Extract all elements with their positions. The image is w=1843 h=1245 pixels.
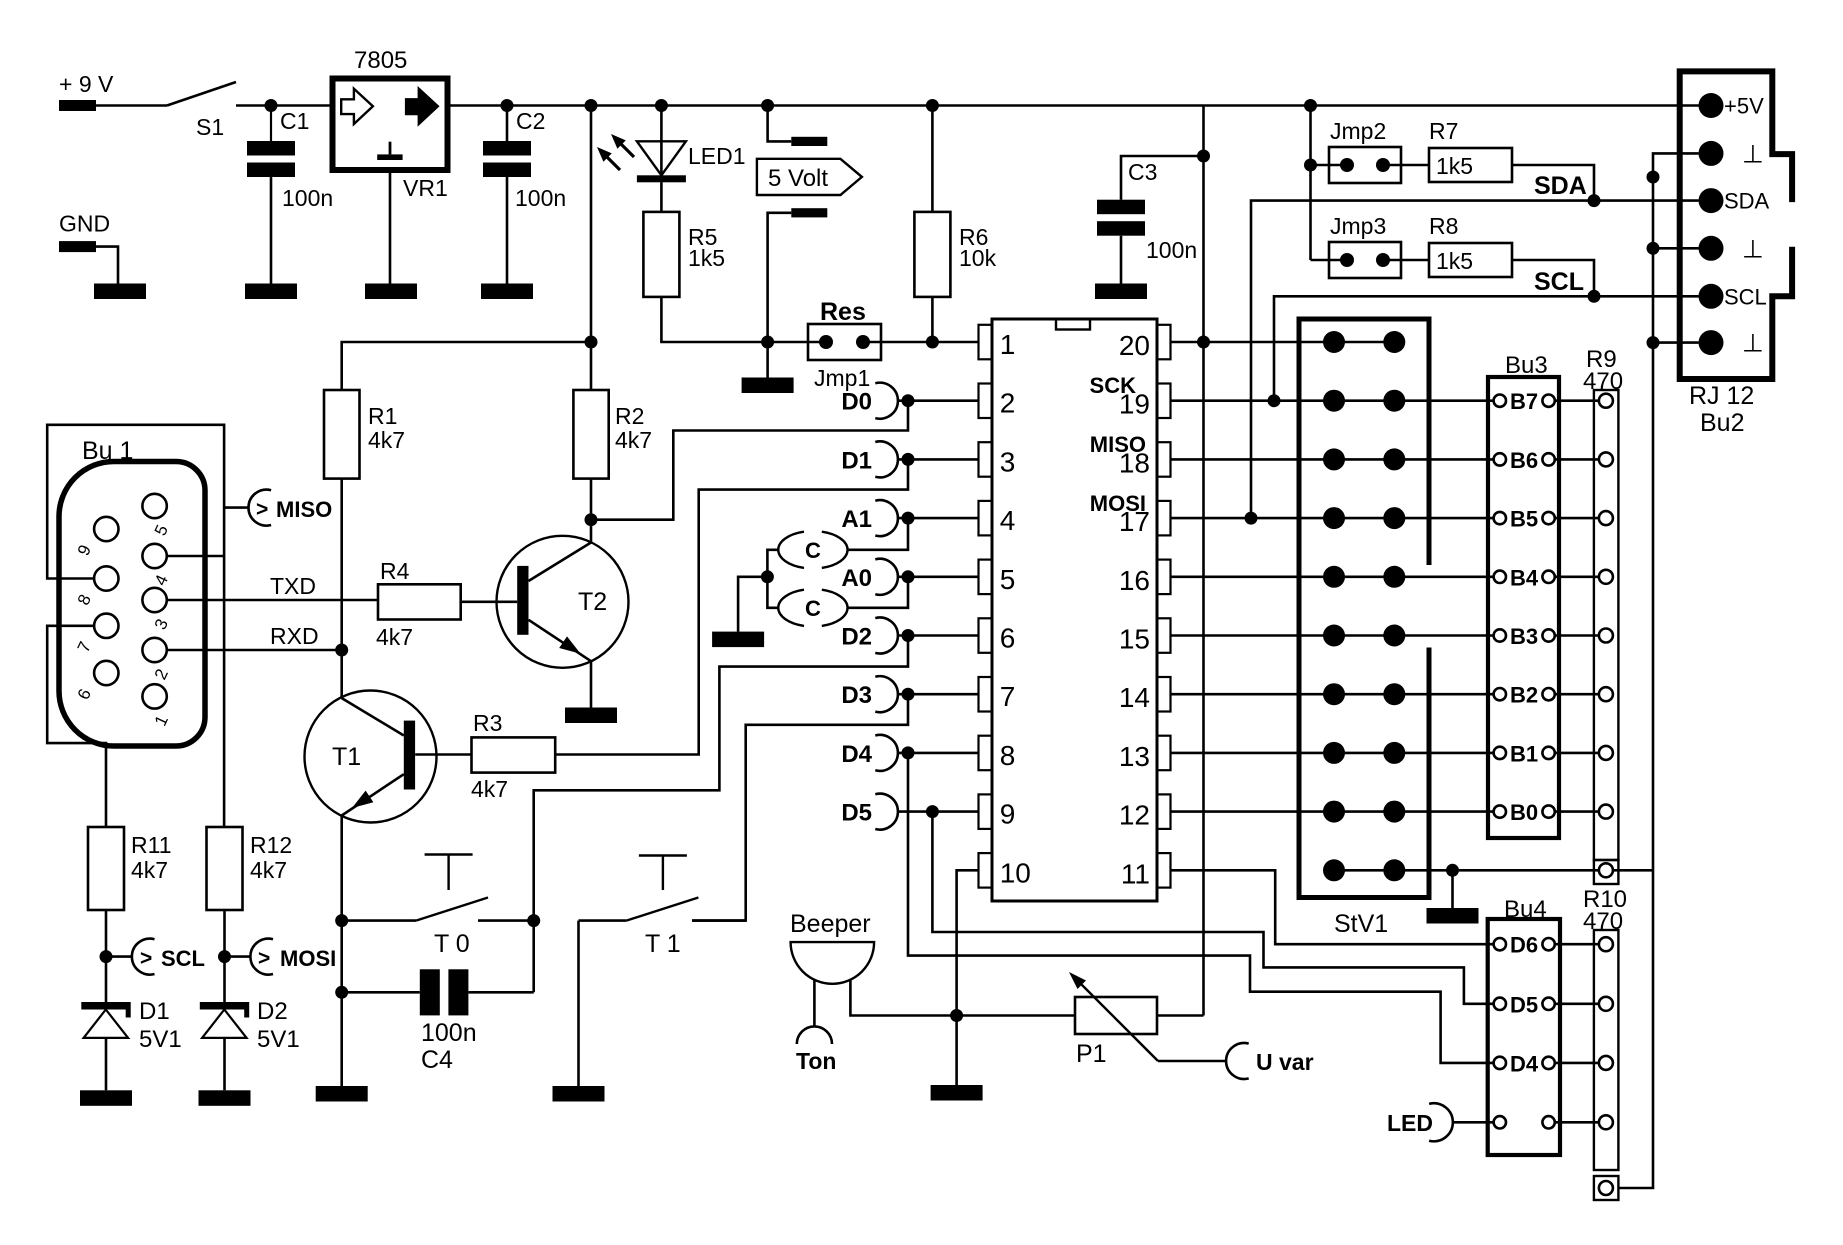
wire StV1 to Bu3 B5 <box>1394 517 1493 520</box>
svg-text:14: 14 <box>1119 682 1150 713</box>
wire rail to RJ12 +5V <box>1699 104 1712 107</box>
svg-text:B0: B0 <box>1510 800 1538 825</box>
svg-text:5 Volt: 5 Volt <box>768 165 828 192</box>
jumper Jmp1 Res <box>808 324 881 360</box>
wire D1 to pin 3 <box>898 458 979 461</box>
pin 2 stub <box>979 384 993 419</box>
StV1 pin row 2 left <box>1323 390 1345 412</box>
Bu3 pin B5 right <box>1542 512 1554 524</box>
wire rail to R1/R2 node <box>590 106 593 391</box>
wire Jmp3 to R8 <box>1383 259 1429 262</box>
svg-text:SCL: SCL <box>1534 268 1584 296</box>
svg-text:A0: A0 <box>841 565 872 592</box>
svg-text:>: > <box>140 947 152 970</box>
VR1 input arrow <box>341 89 373 124</box>
wire 5V lower terminal to reset line <box>768 213 792 342</box>
resistor R7 <box>1429 148 1512 182</box>
svg-text:10: 10 <box>1000 857 1031 888</box>
svg-text:B7: B7 <box>1510 389 1538 414</box>
svg-text:D4: D4 <box>1510 1051 1539 1076</box>
svg-text:MOSI: MOSI <box>1090 491 1146 516</box>
svg-text:Ton: Ton <box>796 1048 836 1074</box>
connector arc D1 <box>875 441 898 477</box>
wire MISO tap <box>224 506 248 509</box>
Bu4 pin row 4 left <box>1494 1116 1506 1128</box>
resistor R4 <box>378 584 461 619</box>
R10 common pin <box>1599 1181 1613 1195</box>
svg-text:4k7: 4k7 <box>376 624 413 650</box>
svg-text:Res: Res <box>820 298 866 326</box>
wire Bu3 to R9 pin B3 <box>1555 634 1599 637</box>
wire R11 to D1 <box>105 910 108 1002</box>
svg-text:R7: R7 <box>1429 118 1458 144</box>
svg-text:P1: P1 <box>1076 1040 1107 1068</box>
svg-text:4k7: 4k7 <box>368 427 405 453</box>
node D5 <box>926 805 939 818</box>
StV1 pin row 5 left <box>1323 566 1345 588</box>
wire beeper left lead <box>813 980 816 1027</box>
svg-text:MISO: MISO <box>1090 432 1146 457</box>
connector RJ12 Bu2 outline <box>1680 71 1792 379</box>
node bus 2 <box>1647 242 1660 255</box>
svg-text:20: 20 <box>1119 330 1150 361</box>
svg-text:C3: C3 <box>1128 159 1157 185</box>
node SCL/R8 <box>1588 290 1601 303</box>
svg-text:>: > <box>258 947 270 970</box>
svg-text:B6: B6 <box>1510 448 1538 473</box>
connector arc D4 <box>875 735 898 771</box>
svg-text:RXD: RXD <box>270 623 319 649</box>
ground for StV1 <box>1427 908 1479 924</box>
svg-text:SCK: SCK <box>1090 373 1137 398</box>
wire StV1 to Bu3 B2 <box>1394 693 1493 696</box>
common circle upper C <box>778 532 804 568</box>
pin 14 stub <box>1157 677 1171 712</box>
svg-text:470: 470 <box>1583 368 1623 395</box>
StV1 pin row 2 right <box>1383 390 1405 412</box>
wire Jmp2 left <box>1311 164 1348 167</box>
Bu1 pin 8 <box>94 566 118 590</box>
Bu3 pin B3 left <box>1494 629 1506 641</box>
svg-text:D2: D2 <box>841 624 872 651</box>
pin 9 stub <box>979 794 993 829</box>
pin 18 stub <box>1157 442 1171 477</box>
svg-text:8: 8 <box>1000 740 1016 771</box>
wire A1 to upper C <box>847 518 908 550</box>
StV1 pin row 7 right <box>1383 683 1405 705</box>
svg-text:⊥: ⊥ <box>1742 330 1764 358</box>
Bu1 pin 2 <box>142 638 166 662</box>
wire StV1 to Bu3 B6 <box>1394 458 1493 461</box>
node R1/R2/+5V <box>585 336 598 349</box>
connector arc U var <box>1226 1043 1249 1079</box>
connector Bu1 DB9 outline <box>59 462 205 747</box>
StV1 pin row 8 left <box>1323 742 1345 764</box>
ground for C2 <box>481 284 533 300</box>
svg-text:6: 6 <box>1000 623 1016 654</box>
wire ground bus <box>1618 153 1698 1188</box>
R10 pin row 3 <box>1599 1056 1613 1070</box>
svg-text:R2: R2 <box>615 403 644 429</box>
node T0/C4/D2 <box>527 914 540 927</box>
ground for T1 emitter <box>316 1086 368 1102</box>
wire +5V vertical <box>1202 106 1205 1016</box>
Bu3 pin B2 left <box>1494 688 1506 700</box>
resistor R5 <box>643 212 679 297</box>
svg-text:D3: D3 <box>841 682 872 709</box>
wire pin11 to Bu4 D6 <box>1171 870 1494 944</box>
wire T1 button right <box>692 919 746 922</box>
wire Bu3 to R9 pin B7 <box>1555 399 1599 402</box>
svg-text:T2: T2 <box>578 588 607 616</box>
node D4 <box>902 746 915 759</box>
StV1 pin row 4 right <box>1383 507 1405 529</box>
wire T1 button left <box>579 919 627 922</box>
wire R1 top link <box>342 342 591 390</box>
connector arc Ton <box>797 1026 832 1044</box>
connector arc MOSI <box>250 939 273 975</box>
connector arc D3 <box>875 676 898 712</box>
ground for T1 button <box>553 1086 605 1102</box>
zener diode D1 <box>81 1002 130 1010</box>
ground for beeper node <box>931 1085 983 1101</box>
StV1 pin row 9 right <box>1383 801 1405 823</box>
svg-text:D5: D5 <box>841 800 872 827</box>
node MOSI clamp <box>218 950 231 963</box>
wire A1 to pin 4 <box>898 517 979 520</box>
StV1 pin row 10 right <box>1383 859 1405 881</box>
LED LED1 <box>660 106 663 183</box>
RJ12 pin ⊥ <box>1699 141 1724 166</box>
svg-text:T 0: T 0 <box>434 930 470 958</box>
Bu4 pin row 1 left <box>1494 938 1506 950</box>
svg-text:R12: R12 <box>250 832 292 858</box>
svg-text:7805: 7805 <box>354 47 407 74</box>
wire T1 collector <box>340 650 343 698</box>
wire pin 15 to StV1 row <box>1171 634 1395 637</box>
RJ12 pin SCL <box>1699 284 1724 309</box>
node C3/+5V <box>1197 150 1210 163</box>
node D3 <box>902 688 915 701</box>
resistor network R10 <box>1594 930 1619 1170</box>
wire C4 right link <box>532 921 535 993</box>
svg-text:C2: C2 <box>516 108 545 134</box>
R9 common pin <box>1599 863 1613 877</box>
Bu3 pin B1 left <box>1494 747 1506 759</box>
wire T0 right <box>478 919 534 922</box>
resistor R6 <box>931 106 934 212</box>
wire beeper right lead <box>850 980 1075 1016</box>
wire StV1 to Bu3 B1 <box>1394 752 1493 755</box>
node StV1 ground <box>1446 864 1459 877</box>
wire rail to 5V terminal <box>768 106 792 142</box>
svg-text:470: 470 <box>1583 908 1623 935</box>
wire upper C to node <box>767 550 778 577</box>
Bu3 pin B4 left <box>1494 571 1506 583</box>
resistor R12 <box>207 827 243 910</box>
node SDA/R7 <box>1588 194 1601 207</box>
Bu3 pin B0 left <box>1494 805 1506 817</box>
svg-text:LED1: LED1 <box>688 143 746 169</box>
wire R4 to T2 base <box>461 600 518 603</box>
R9 pin B1 <box>1599 746 1613 760</box>
svg-text:Jmp1: Jmp1 <box>814 365 870 391</box>
node D0 <box>902 394 915 407</box>
node R6/reset <box>926 336 939 349</box>
wire R5 to reset line <box>661 297 826 342</box>
StV1 pin row 7 left <box>1323 683 1345 705</box>
pin 17 stub <box>1157 501 1171 536</box>
StV1 pin row 1 left <box>1323 331 1345 353</box>
svg-text:R1: R1 <box>368 403 397 429</box>
Bu1 pin 3 <box>142 588 166 612</box>
StV1 pin row 9 left <box>1323 801 1345 823</box>
wire Bu3 to R9 pin B0 <box>1555 810 1599 813</box>
node SCL clamp <box>100 950 113 963</box>
wire D5 to Bu4 <box>932 812 1493 1004</box>
svg-text:⊥: ⊥ <box>1742 235 1764 263</box>
wire StV1 to Bu3 B7 <box>1394 399 1493 402</box>
Bu3 pin B6 right <box>1542 453 1554 465</box>
pin 4 stub <box>979 501 993 536</box>
wire T0 left <box>342 919 416 922</box>
capacitor C3 <box>1121 156 1204 200</box>
node R1R2/rail <box>585 99 598 112</box>
svg-text:12: 12 <box>1119 800 1150 831</box>
wire switch to C1 node <box>236 104 332 107</box>
RJ12 pin ⊥ <box>1699 330 1724 355</box>
svg-text:D4: D4 <box>841 741 872 768</box>
wire pin 17 to StV1 row <box>1171 517 1395 520</box>
connector arc D0 <box>875 383 898 419</box>
svg-text:1: 1 <box>1000 329 1016 360</box>
svg-text:100n: 100n <box>421 1019 477 1047</box>
button T0 <box>425 853 473 855</box>
connector arc A0 <box>875 559 898 595</box>
node SCL/pin19 <box>1268 394 1281 407</box>
wire MOSI arc <box>225 955 251 958</box>
jumper Jmp2 <box>1329 147 1401 183</box>
svg-text:B4: B4 <box>1510 565 1539 590</box>
StV1 pin row 3 right <box>1383 448 1405 470</box>
node LED1/rail <box>655 99 668 112</box>
svg-text:TXD: TXD <box>270 573 316 599</box>
wire D5 to pin 9 <box>898 810 979 813</box>
svg-text:D1: D1 <box>841 447 872 474</box>
node SDA/pin17 <box>1245 512 1258 525</box>
svg-text:B2: B2 <box>1510 683 1538 708</box>
transistor T2 <box>497 536 629 668</box>
wire Jmp3 left <box>1311 259 1348 262</box>
svg-text:SDA: SDA <box>1534 172 1587 200</box>
wire StV1 ground row <box>1334 869 1653 872</box>
wire Bu4 row 1 to R10 <box>1555 943 1599 946</box>
svg-text:16: 16 <box>1119 565 1150 596</box>
wire pin8 loop <box>47 425 224 827</box>
wire SDA line <box>1251 201 1699 518</box>
wire A0 to pin 5 <box>898 575 979 578</box>
Bu4 pin row 3 left <box>1494 1057 1506 1069</box>
node beeper/ground <box>950 1009 963 1022</box>
resistor R1 <box>324 390 360 479</box>
StV1 pin row 6 right <box>1383 625 1405 647</box>
wire gnd pin3 <box>1653 341 1699 344</box>
voltage regulator VR1 7805 box <box>333 79 448 171</box>
wire StV1 ground drop <box>1451 870 1454 908</box>
Bu1 pin 6 <box>94 661 118 685</box>
svg-text:R4: R4 <box>380 558 410 584</box>
wire D1 to R3 <box>555 459 908 754</box>
svg-text:D6: D6 <box>1510 933 1538 958</box>
Bu1 pin 7 <box>94 614 118 638</box>
svg-text:C4: C4 <box>421 1046 453 1074</box>
R9 pin B7 <box>1599 394 1613 408</box>
resistor R2 <box>573 390 608 479</box>
R10 pin row 1 <box>1599 937 1613 951</box>
svg-text:Jmp3: Jmp3 <box>1330 213 1386 239</box>
zener diode D2 <box>200 1002 249 1010</box>
ground for C1 <box>245 284 297 300</box>
capacitor C4 <box>420 969 440 1015</box>
node C common <box>761 570 774 583</box>
svg-text:4k7: 4k7 <box>471 776 508 802</box>
wire pin10 to ground <box>957 870 979 1085</box>
wire pin 14 to StV1 row <box>1171 693 1395 696</box>
svg-text:5: 5 <box>1000 564 1016 595</box>
StV1 pin row 10 left <box>1323 859 1345 881</box>
wire T2 emitter to ground <box>590 661 593 707</box>
ground for C3 <box>1095 284 1147 300</box>
ground for VR1 <box>365 284 417 300</box>
svg-text:100n: 100n <box>515 185 566 211</box>
svg-text:B3: B3 <box>1510 624 1538 649</box>
ground for GND terminal <box>94 284 146 300</box>
pin 15 stub <box>1157 618 1171 653</box>
wire Bu3 to R9 pin B4 <box>1555 575 1599 578</box>
svg-text:+ 9 V: + 9 V <box>59 71 114 97</box>
R9 pin B2 <box>1599 687 1613 701</box>
switch S1 <box>167 82 236 106</box>
wire StV1 to Bu3 B3 <box>1394 634 1493 637</box>
wire Jmp2 to R7 <box>1383 164 1429 167</box>
svg-text:>: > <box>256 498 268 521</box>
wire D3 to pin 7 <box>898 693 979 696</box>
svg-text:C: C <box>805 596 821 621</box>
svg-text:StV1: StV1 <box>1334 910 1388 938</box>
IC notch <box>1056 319 1090 330</box>
node A1 <box>902 512 915 525</box>
wire D0 to T2 collector <box>591 401 908 520</box>
svg-text:+5V: +5V <box>1724 94 1764 119</box>
wire R7 to SDA <box>1512 165 1594 201</box>
Bu4 pin row 4 right <box>1542 1116 1554 1128</box>
svg-text:Beeper: Beeper <box>790 910 871 938</box>
svg-text:4k7: 4k7 <box>615 427 652 453</box>
Bu3 pin B7 left <box>1494 395 1506 407</box>
svg-text:GND: GND <box>59 211 110 237</box>
svg-text:⊥: ⊥ <box>1742 140 1764 168</box>
Bu3 pin B3 right <box>1542 629 1554 641</box>
svg-text:4k7: 4k7 <box>250 857 287 883</box>
Bu4 pin row 3 right <box>1542 1057 1554 1069</box>
wire StV1 to Bu3 B4 <box>1394 575 1493 578</box>
svg-text:R3: R3 <box>473 710 502 736</box>
RJ12 pin ⊥ <box>1699 236 1724 261</box>
connector arc A1 <box>875 500 898 536</box>
terminal bar lower 5V <box>791 208 827 217</box>
wire VR1 ground <box>389 173 392 284</box>
node A0 <box>902 570 915 583</box>
svg-text:SCL: SCL <box>161 946 205 971</box>
flag 5 Volt <box>757 159 862 195</box>
Bu4 pin row 2 right <box>1542 998 1554 1010</box>
node 5Volt/rail <box>761 99 774 112</box>
R9 pin B5 <box>1599 511 1613 525</box>
wire R2 to collector node <box>590 479 593 520</box>
svg-text:R8: R8 <box>1429 213 1458 239</box>
svg-text:9: 9 <box>1000 799 1016 830</box>
svg-text:D1: D1 <box>139 998 170 1025</box>
svg-text:4: 4 <box>1000 505 1016 536</box>
wire node to ground <box>766 342 769 378</box>
Bu3 pin B5 left <box>1494 512 1506 524</box>
StV1 pin row 3 left <box>1323 448 1345 470</box>
pin 20 stub <box>1157 325 1171 360</box>
Bu3 pin B0 right <box>1542 805 1554 817</box>
node C2/rail <box>501 99 514 112</box>
wire T1 button left to ground <box>577 921 580 1086</box>
wire D3 to T1 button <box>692 694 908 920</box>
VR1 output arrow <box>406 89 438 124</box>
svg-text:D0: D0 <box>841 389 872 416</box>
R9 pin B6 <box>1599 452 1613 466</box>
node bus 3 <box>1647 336 1660 349</box>
wire Bu4 row 2 to R10 <box>1555 1002 1599 1005</box>
R9 pin B0 <box>1599 805 1613 819</box>
svg-text:1k5: 1k5 <box>1436 153 1473 179</box>
svg-text:R11: R11 <box>131 832 172 858</box>
ground for T2 <box>565 708 617 724</box>
wire rail to Jmp2/Jmp3 <box>1309 106 1312 261</box>
svg-text:4k7: 4k7 <box>131 857 168 883</box>
RJ12 pin +5V <box>1699 93 1724 118</box>
pin 8 stub <box>979 736 993 771</box>
R9 pin B4 <box>1599 570 1613 584</box>
wire R12 to D2 <box>223 910 226 1002</box>
wire TXD <box>167 599 378 602</box>
wire SCL line <box>1274 296 1699 400</box>
resistor R8 <box>1429 243 1512 277</box>
pin 11 stub <box>1157 853 1171 888</box>
wire Bu3 to R9 pin B6 <box>1555 458 1599 461</box>
jumper Jmp3 <box>1329 242 1401 278</box>
wire +5V rail <box>448 104 1699 107</box>
wire Bu3 to R9 pin B1 <box>1555 752 1599 755</box>
wire R1 to RXD <box>340 479 343 650</box>
wire gnd pin2 <box>1653 247 1699 250</box>
pin 16 stub <box>1157 560 1171 595</box>
wire +9V to switch <box>96 104 167 107</box>
connector Bu4 <box>1488 919 1560 1155</box>
common circle lower C <box>778 590 804 626</box>
wire Bu3 to R9 pin B5 <box>1555 517 1599 520</box>
wire Bu4 row 3 to R10 <box>1555 1062 1599 1065</box>
terminal bar upper 5V <box>791 137 827 146</box>
Bu3 pin B1 right <box>1542 747 1554 759</box>
svg-text:B1: B1 <box>1510 741 1538 766</box>
node D1 <box>902 453 915 466</box>
capacitor C2 <box>506 106 509 142</box>
